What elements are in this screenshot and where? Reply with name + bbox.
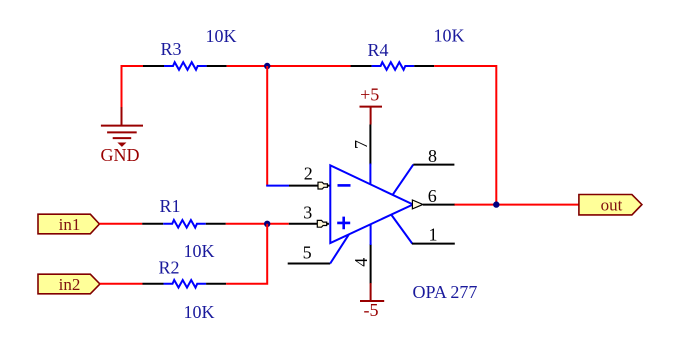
ground GND symbol [101, 107, 143, 146]
svg-text:in1: in1 [59, 215, 81, 234]
wire: pin 6 to out port [455, 204, 580, 206]
wire: blue stub into pin 2 [266, 185, 289, 187]
node: feedback junction top [264, 63, 270, 69]
port in1 [38, 214, 99, 234]
pin 6 line [423, 204, 455, 206]
op-amp minus symbol [338, 184, 351, 187]
pin 4 line [370, 244, 372, 284]
svg-text:R1: R1 [160, 196, 181, 216]
wire: GND corner vertical [121, 65, 123, 107]
pin 3 line [289, 223, 318, 225]
pin 6 output arrow [412, 200, 423, 209]
svg-text:3: 3 [303, 203, 312, 223]
svg-text:5: 5 [303, 243, 312, 263]
resistor R3 [143, 62, 227, 70]
port out [579, 195, 642, 215]
svg-text:1: 1 [429, 224, 438, 244]
node: input junction [264, 221, 270, 227]
node: output junction [493, 201, 499, 207]
wire: in2 to R2 [100, 283, 143, 285]
svg-text:OPA 277: OPA 277 [413, 282, 478, 302]
wire: R1 to pin 3 [226, 223, 289, 225]
svg-text:7: 7 [351, 140, 371, 149]
svg-text:-5: -5 [364, 300, 379, 320]
svg-text:R2: R2 [159, 258, 180, 278]
svg-text:8: 8 [428, 146, 437, 166]
svg-text:10K: 10K [434, 26, 465, 46]
resistor R2 [143, 280, 227, 288]
svg-text:10K: 10K [184, 302, 215, 322]
resistor R1 [142, 220, 226, 228]
op-amp plus symbol [337, 217, 350, 230]
port in2 [38, 274, 100, 294]
wire: junction down to pin 2 [266, 66, 268, 186]
wire: R4 to output corner [434, 66, 496, 205]
svg-text:2: 2 [304, 164, 313, 184]
svg-text:R4: R4 [368, 40, 389, 60]
op-amp U1 triangle [330, 165, 413, 243]
svg-text:GND: GND [101, 145, 140, 165]
wire: GND corner horizontal to R3 [122, 65, 144, 67]
pin 2 line [289, 185, 318, 187]
power -5 symbol [360, 283, 384, 301]
wire: in1 to R1 [99, 223, 142, 225]
svg-text:out: out [601, 195, 623, 214]
wire: R2 up to input junction [226, 224, 267, 284]
wire: R3 to R4 segment [227, 65, 351, 67]
svg-text:10K: 10K [184, 241, 215, 261]
svg-text:R3: R3 [161, 39, 182, 59]
svg-text:6: 6 [428, 186, 437, 206]
svg-text:+5: +5 [360, 85, 379, 105]
svg-text:in2: in2 [59, 275, 81, 294]
svg-text:4: 4 [351, 258, 371, 267]
pin 1 line [392, 215, 413, 244]
resistor R4 [351, 62, 435, 70]
svg-text:10K: 10K [206, 26, 237, 46]
pin 7 line [369, 125, 371, 165]
pin 8 line [393, 165, 414, 195]
power +5 symbol [360, 107, 383, 125]
pin 5 line [288, 263, 331, 265]
